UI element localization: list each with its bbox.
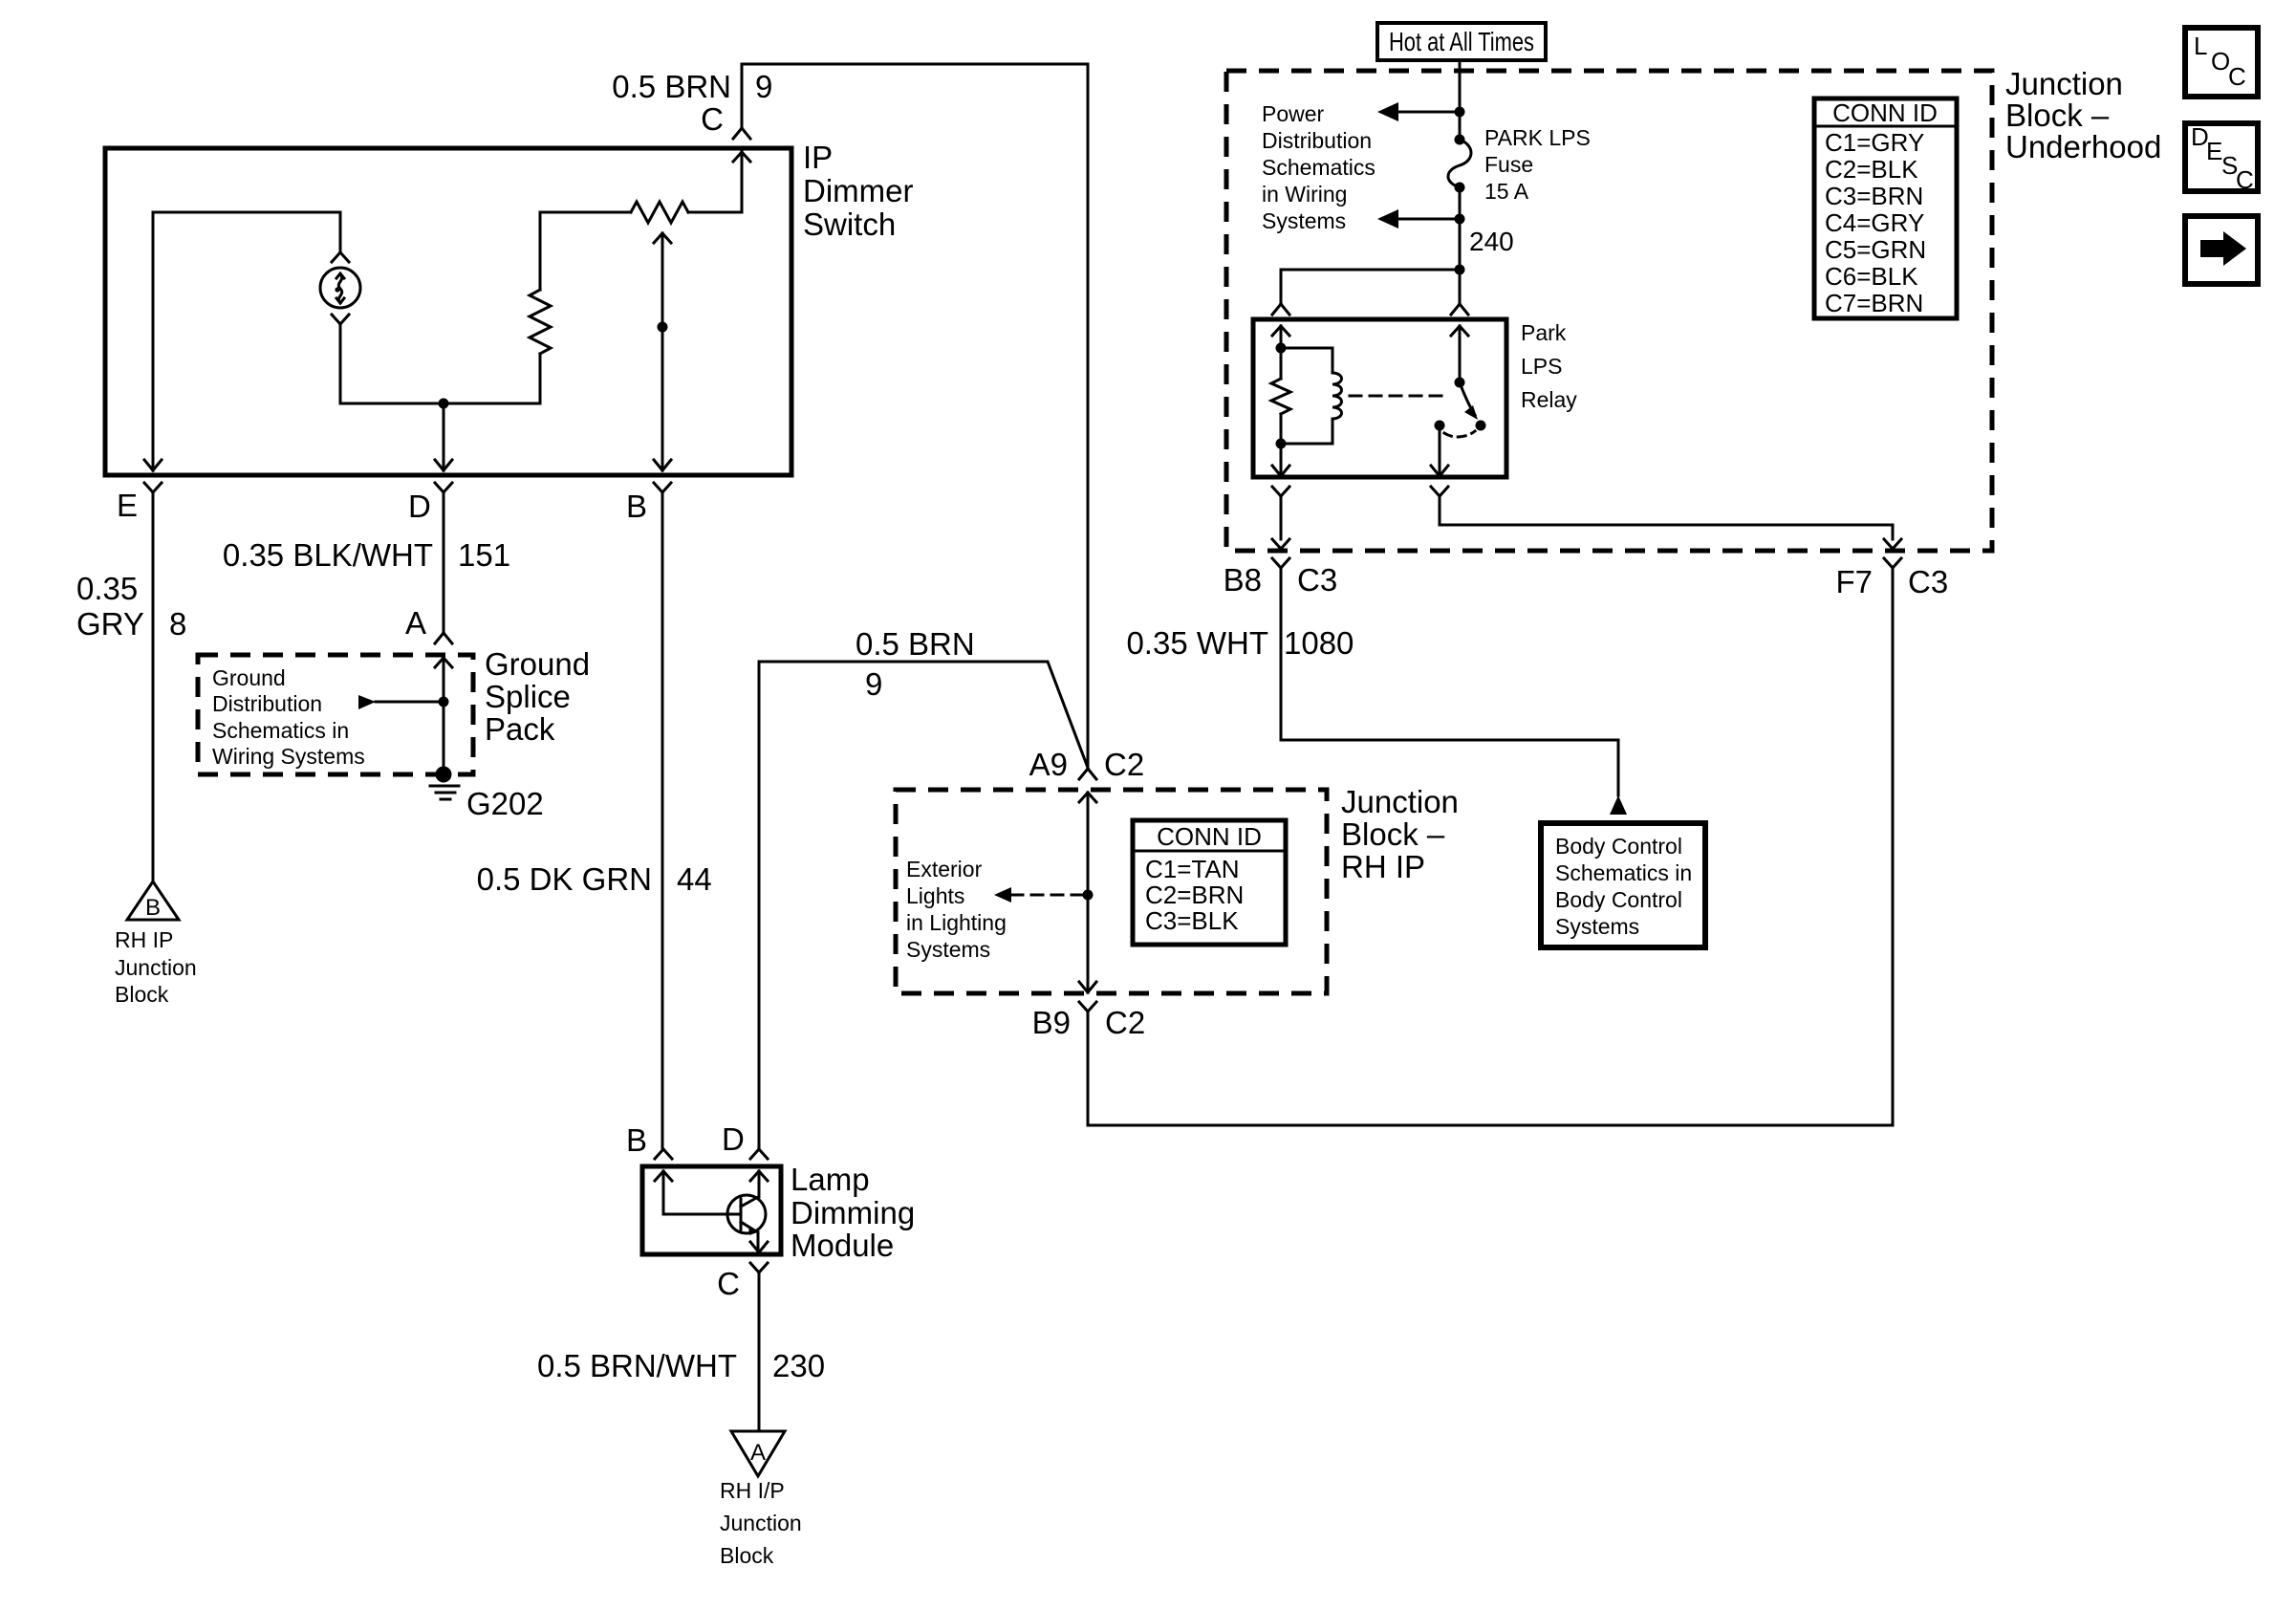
svg-text:Block –: Block – <box>2005 98 2110 133</box>
svg-text:9: 9 <box>865 666 882 702</box>
svg-text:C1=GRY: C1=GRY <box>1825 128 1924 157</box>
svg-text:Relay: Relay <box>1521 387 1577 412</box>
svg-text:Body Control: Body Control <box>1555 834 1682 859</box>
svg-text:D: D <box>408 489 431 524</box>
svg-text:LPS: LPS <box>1521 354 1562 379</box>
svg-text:C3: C3 <box>1297 562 1337 598</box>
svg-text:0.5 DK GRN: 0.5 DK GRN <box>477 861 652 897</box>
svg-text:A: A <box>750 1440 766 1466</box>
svg-text:Block: Block <box>720 1543 774 1568</box>
svg-text:C2: C2 <box>1105 1005 1145 1040</box>
svg-text:240: 240 <box>1469 227 1514 256</box>
svg-text:Ground: Ground <box>485 646 590 682</box>
svg-text:Ground: Ground <box>212 665 286 690</box>
svg-text:RH IP: RH IP <box>115 927 173 952</box>
svg-text:C4=GRY: C4=GRY <box>1825 208 1924 237</box>
svg-text:Lamp: Lamp <box>791 1162 870 1197</box>
svg-text:Park: Park <box>1521 320 1567 345</box>
svg-text:Dimmer: Dimmer <box>803 173 913 208</box>
svg-text:151: 151 <box>458 537 510 573</box>
svg-text:C3=BLK: C3=BLK <box>1145 906 1239 935</box>
svg-text:in Wiring: in Wiring <box>1262 182 1347 207</box>
svg-text:C3: C3 <box>1908 564 1948 599</box>
svg-text:C3=BRN: C3=BRN <box>1825 182 1923 210</box>
svg-text:8: 8 <box>169 606 186 642</box>
svg-text:C: C <box>2236 165 2254 194</box>
svg-text:Wiring Systems: Wiring Systems <box>212 744 365 769</box>
svg-text:Schematics in: Schematics in <box>212 718 349 743</box>
svg-text:0.5 BRN: 0.5 BRN <box>856 626 975 662</box>
svg-text:Distribution: Distribution <box>212 691 322 716</box>
svg-text:RH IP: RH IP <box>1341 849 1425 884</box>
svg-text:A: A <box>405 605 426 641</box>
svg-text:F7: F7 <box>1835 564 1873 599</box>
svg-text:D: D <box>722 1121 745 1157</box>
svg-text:Switch: Switch <box>803 207 896 242</box>
svg-text:Junction: Junction <box>2005 66 2123 101</box>
svg-text:Fuse: Fuse <box>1484 152 1533 177</box>
svg-text:Splice: Splice <box>485 679 571 714</box>
svg-text:Systems: Systems <box>1262 208 1346 233</box>
svg-text:E: E <box>117 488 138 523</box>
svg-text:C: C <box>717 1266 740 1301</box>
svg-text:0.5 BRN: 0.5 BRN <box>612 69 731 104</box>
svg-text:9: 9 <box>755 69 772 104</box>
svg-text:1080: 1080 <box>1284 625 1354 661</box>
svg-text:E: E <box>2206 137 2222 165</box>
svg-text:CONN ID: CONN ID <box>1832 98 1938 127</box>
svg-text:Junction: Junction <box>720 1511 802 1535</box>
svg-text:Dimming: Dimming <box>791 1195 915 1230</box>
svg-text:0.35 BLK/WHT: 0.35 BLK/WHT <box>223 537 433 573</box>
svg-text:Schematics: Schematics <box>1262 155 1375 180</box>
svg-text:Exterior: Exterior <box>906 857 983 881</box>
svg-text:A9: A9 <box>1029 747 1068 782</box>
svg-text:Schematics in: Schematics in <box>1555 860 1692 885</box>
svg-text:RH I/P: RH I/P <box>720 1478 785 1503</box>
svg-text:L: L <box>2194 32 2207 60</box>
svg-text:CONN ID: CONN ID <box>1157 822 1262 851</box>
svg-text:IP: IP <box>803 140 833 175</box>
svg-text:Underhood: Underhood <box>2005 129 2161 164</box>
svg-text:G202: G202 <box>466 786 544 821</box>
svg-text:C5=GRN: C5=GRN <box>1825 235 1926 264</box>
svg-text:C7=BRN: C7=BRN <box>1825 289 1923 317</box>
svg-text:B: B <box>145 895 161 921</box>
svg-text:44: 44 <box>677 861 712 897</box>
svg-text:C1=TAN: C1=TAN <box>1145 855 1240 883</box>
svg-text:B: B <box>626 1122 647 1158</box>
svg-text:B: B <box>626 489 647 524</box>
svg-text:0.5 BRN/WHT: 0.5 BRN/WHT <box>537 1348 737 1383</box>
svg-text:0.35: 0.35 <box>76 571 138 606</box>
svg-text:C2=BLK: C2=BLK <box>1825 155 1918 184</box>
svg-text:B9: B9 <box>1032 1005 1071 1040</box>
svg-text:GRY: GRY <box>76 606 144 642</box>
svg-text:C6=BLK: C6=BLK <box>1825 262 1918 291</box>
svg-text:Block: Block <box>115 982 169 1007</box>
svg-text:Block –: Block – <box>1341 816 1445 852</box>
svg-text:Pack: Pack <box>485 711 555 747</box>
svg-text:Distribution: Distribution <box>1262 128 1372 153</box>
svg-text:PARK LPS: PARK LPS <box>1484 125 1591 150</box>
svg-text:C: C <box>701 101 724 137</box>
svg-text:Junction: Junction <box>1341 784 1459 819</box>
svg-text:230: 230 <box>772 1348 825 1383</box>
svg-text:Systems: Systems <box>1555 914 1639 939</box>
svg-text:C: C <box>2228 62 2246 91</box>
svg-text:Power: Power <box>1262 101 1325 126</box>
svg-text:Module: Module <box>791 1228 894 1263</box>
svg-text:B8: B8 <box>1224 562 1262 598</box>
svg-text:Hot at All Times: Hot at All Times <box>1389 27 1534 56</box>
svg-text:Junction: Junction <box>115 955 197 980</box>
svg-text:C2=BRN: C2=BRN <box>1145 881 1244 909</box>
svg-text:C2: C2 <box>1104 747 1144 782</box>
svg-text:in Lighting: in Lighting <box>906 910 1007 935</box>
svg-text:Body Control: Body Control <box>1555 887 1682 912</box>
svg-text:Lights: Lights <box>906 883 964 908</box>
svg-text:Systems: Systems <box>906 937 990 962</box>
svg-text:0.35 WHT: 0.35 WHT <box>1126 625 1268 661</box>
svg-text:15 A: 15 A <box>1484 179 1529 204</box>
